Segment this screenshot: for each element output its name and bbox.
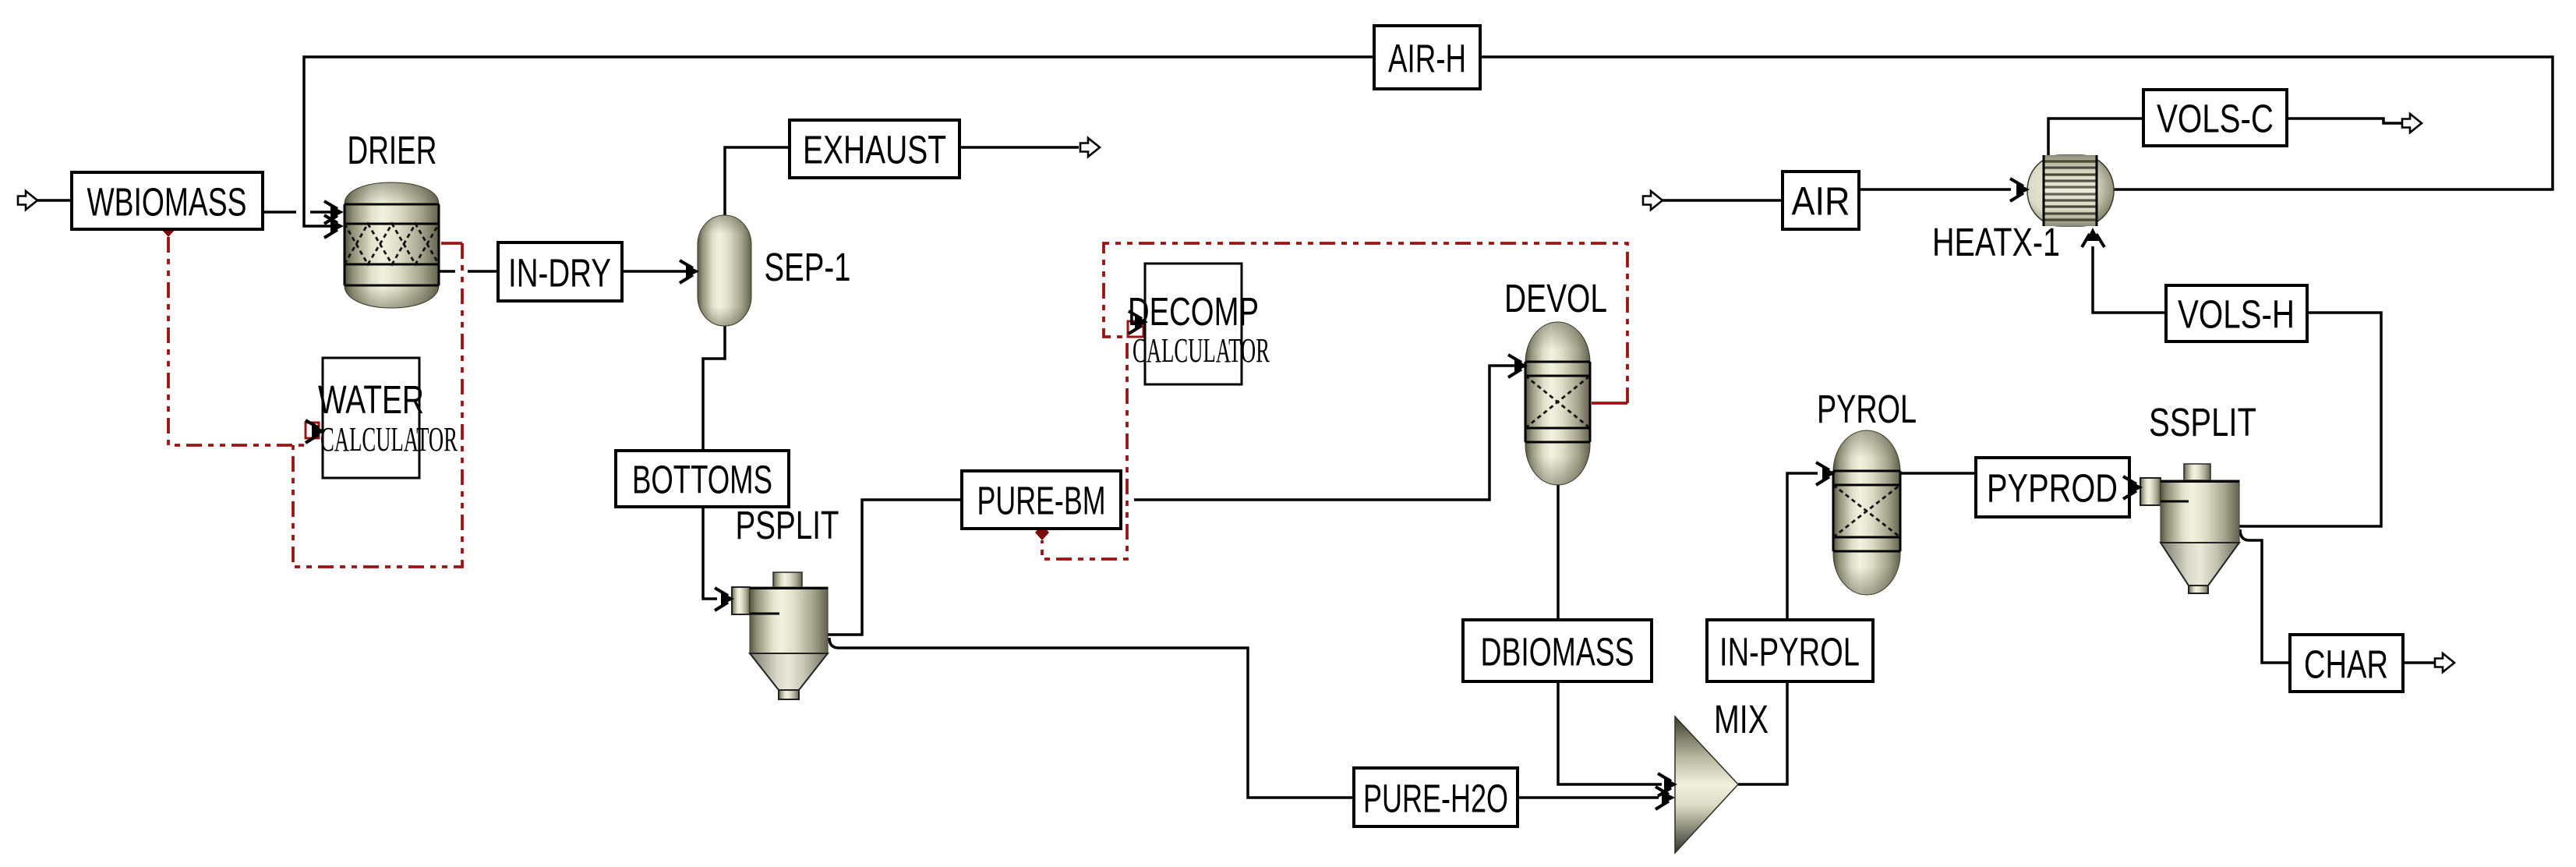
open arrow AIR inlet xyxy=(1643,191,1663,210)
stream box WBIOMASS xyxy=(72,172,263,229)
svg-text:PSPLIT: PSPLIT xyxy=(736,503,839,547)
stream box AIR xyxy=(1783,172,1859,229)
svg-text:WATER: WATER xyxy=(318,377,424,422)
open arrow CHAR outlet xyxy=(2435,653,2454,672)
wire SEP-1 to BOTTOMS xyxy=(703,326,725,451)
wire PURE-BM to DEVOL xyxy=(1134,366,1518,500)
svg-text:PURE-BM: PURE-BM xyxy=(977,479,1106,523)
wire VOLS-H to HEATX-1 xyxy=(2093,246,2166,313)
feed arrow into WATER xyxy=(306,420,325,443)
svg-text:SEP-1: SEP-1 xyxy=(765,245,851,289)
svg-text:HEATX-1: HEATX-1 xyxy=(1932,220,2060,264)
wire AIR-H HEATX-1 to DRIER xyxy=(304,57,2553,226)
wire HEATX-1 to VOLS-C xyxy=(2048,119,2143,155)
stream box AIR-H xyxy=(1374,26,1480,89)
red solid wire DRIER tap xyxy=(441,242,462,245)
svg-text:PYPROD: PYPROD xyxy=(1987,466,2118,511)
feed arrow into DEVOL xyxy=(1508,355,1528,377)
open arrow VOLS-C outlet xyxy=(2402,114,2422,133)
feed arrow into DRIER from WBIOMASS xyxy=(324,201,344,224)
block DRIER drum xyxy=(345,182,439,308)
stream box PURE-BM xyxy=(962,471,1121,529)
svg-text:DRIER: DRIER xyxy=(348,128,437,172)
wire MIX to IN-PYROL to PYROL xyxy=(1738,473,1818,784)
red dash-dot wire DEVOL to DECOMP xyxy=(1104,243,1627,403)
wire PSPLIT to PURE-H2O xyxy=(829,638,1354,798)
feed arrow into PSPLIT xyxy=(715,588,734,610)
wire AIR feed xyxy=(1662,199,1783,202)
feed arrow into SSPLIT xyxy=(2123,476,2143,499)
feed arrow into SEP-1 xyxy=(680,260,699,283)
feed arrow into MIX from DBIOMASS xyxy=(1658,773,1677,796)
wire DBIOMASS to MIX xyxy=(1558,682,1662,784)
feed arrow into HEATX-1 from AIR xyxy=(2010,179,2030,201)
red diamond on PURE-BM xyxy=(1035,525,1049,540)
svg-text:IN-PYROL: IN-PYROL xyxy=(1719,630,1860,674)
svg-text:VOLS-H: VOLS-H xyxy=(2178,292,2295,337)
block PSPLIT cyclone xyxy=(732,572,828,699)
red port square WATER xyxy=(306,423,319,438)
calculator block WATER xyxy=(323,358,419,478)
stream box PYPROD xyxy=(1976,458,2129,517)
stream box PURE-H2O xyxy=(1354,768,1518,826)
feed arrow into PYROL xyxy=(1816,462,1836,485)
red dash-dot wire DECOMP to PURE-BM xyxy=(1042,343,1127,559)
svg-text:PYROL: PYROL xyxy=(1817,387,1917,431)
wire VOLS-C outlet xyxy=(2287,119,2404,123)
stream box IN-PYROL xyxy=(1707,620,1873,681)
svg-text:AIR: AIR xyxy=(1792,179,1850,224)
svg-text:IN-DRY: IN-DRY xyxy=(508,251,611,295)
wire DRIER to IN-DRY xyxy=(439,270,498,273)
wire AIR to HEATX-1 xyxy=(1859,188,2011,191)
feed arrow into HEATX-1 from VOLS-H xyxy=(2082,228,2104,247)
block DEVOL vessel xyxy=(1525,322,1590,485)
wire BOTTOMS to PSPLIT xyxy=(703,507,717,599)
wire SSPLIT to VOLS-H xyxy=(2239,313,2381,526)
block MIX mixer xyxy=(1675,717,1738,853)
block PYROL vessel xyxy=(1833,430,1900,595)
wire IN-DRY to SEP-1 xyxy=(622,270,692,273)
block SSPLIT cyclone xyxy=(2140,464,2239,593)
stream box CHAR xyxy=(2290,635,2403,692)
svg-text:SSPLIT: SSPLIT xyxy=(2149,400,2256,444)
wire WBIOMASS feed xyxy=(37,199,72,202)
svg-text:WBIOMASS: WBIOMASS xyxy=(87,180,247,225)
red diamond on WBIOMASS xyxy=(161,221,175,237)
svg-text:EXHAUST: EXHAUST xyxy=(803,128,946,172)
wire SSPLIT to CHAR xyxy=(2240,529,2290,663)
red port square DECOMP xyxy=(1128,321,1143,337)
feed arrow into DECOMP xyxy=(1129,311,1148,334)
calculator block DECOMP xyxy=(1145,264,1242,384)
open arrow WBIOMASS inlet xyxy=(18,191,37,210)
svg-text:DBIOMASS: DBIOMASS xyxy=(1481,630,1634,674)
wire PYPROD to SSPLIT xyxy=(2129,486,2137,489)
red solid wire DEVOL tap xyxy=(1592,402,1627,405)
svg-text:BOTTOMS: BOTTOMS xyxy=(632,458,772,502)
wire WBIOMASS to DRIER xyxy=(263,211,338,214)
wire PURE-H2O to MIX xyxy=(1518,796,1659,799)
svg-text:CALCULATOR: CALCULATOR xyxy=(320,420,458,458)
wire EXHAUST outlet xyxy=(959,146,1079,149)
red dash-dot wire WBIOMASS to WATER xyxy=(168,237,304,445)
svg-text:CHAR: CHAR xyxy=(2304,642,2388,687)
svg-text:CALCULATOR: CALCULATOR xyxy=(1133,331,1270,370)
wire CHAR outlet xyxy=(2403,661,2435,664)
svg-text:PURE-H2O: PURE-H2O xyxy=(1363,777,1508,821)
svg-text:MIX: MIX xyxy=(1714,697,1769,741)
block HEATX-1 exchanger xyxy=(2027,155,2114,226)
svg-text:DECOMP: DECOMP xyxy=(1128,289,1259,334)
svg-text:VOLS-C: VOLS-C xyxy=(2157,97,2274,141)
stream box EXHAUST xyxy=(790,120,959,178)
wire SEP-1 to EXHAUST xyxy=(725,147,790,216)
stream box VOLS-C xyxy=(2143,90,2287,146)
svg-text:DEVOL: DEVOL xyxy=(1504,276,1607,320)
svg-text:AIR-H: AIR-H xyxy=(1388,37,1466,81)
stream box IN-DRY xyxy=(498,242,622,301)
block SEP-1 vessel xyxy=(698,215,751,326)
stream box DBIOMASS xyxy=(1463,620,1652,681)
stream box BOTTOMS xyxy=(616,451,789,507)
stream box VOLS-H xyxy=(2166,285,2307,341)
feed arrow into MIX from PURE-H2O xyxy=(1655,787,1675,809)
red dash-dot wire DRIER to WATER xyxy=(293,243,462,567)
open arrow EXHAUST outlet xyxy=(1080,138,1100,157)
wire PYROL to PYPROD xyxy=(1900,472,1976,475)
wire PSPLIT to PURE-BM xyxy=(828,500,962,635)
wire DEVOL to DBIOMASS xyxy=(1557,485,1560,620)
feed arrow into DRIER from AIR-H xyxy=(324,215,344,238)
